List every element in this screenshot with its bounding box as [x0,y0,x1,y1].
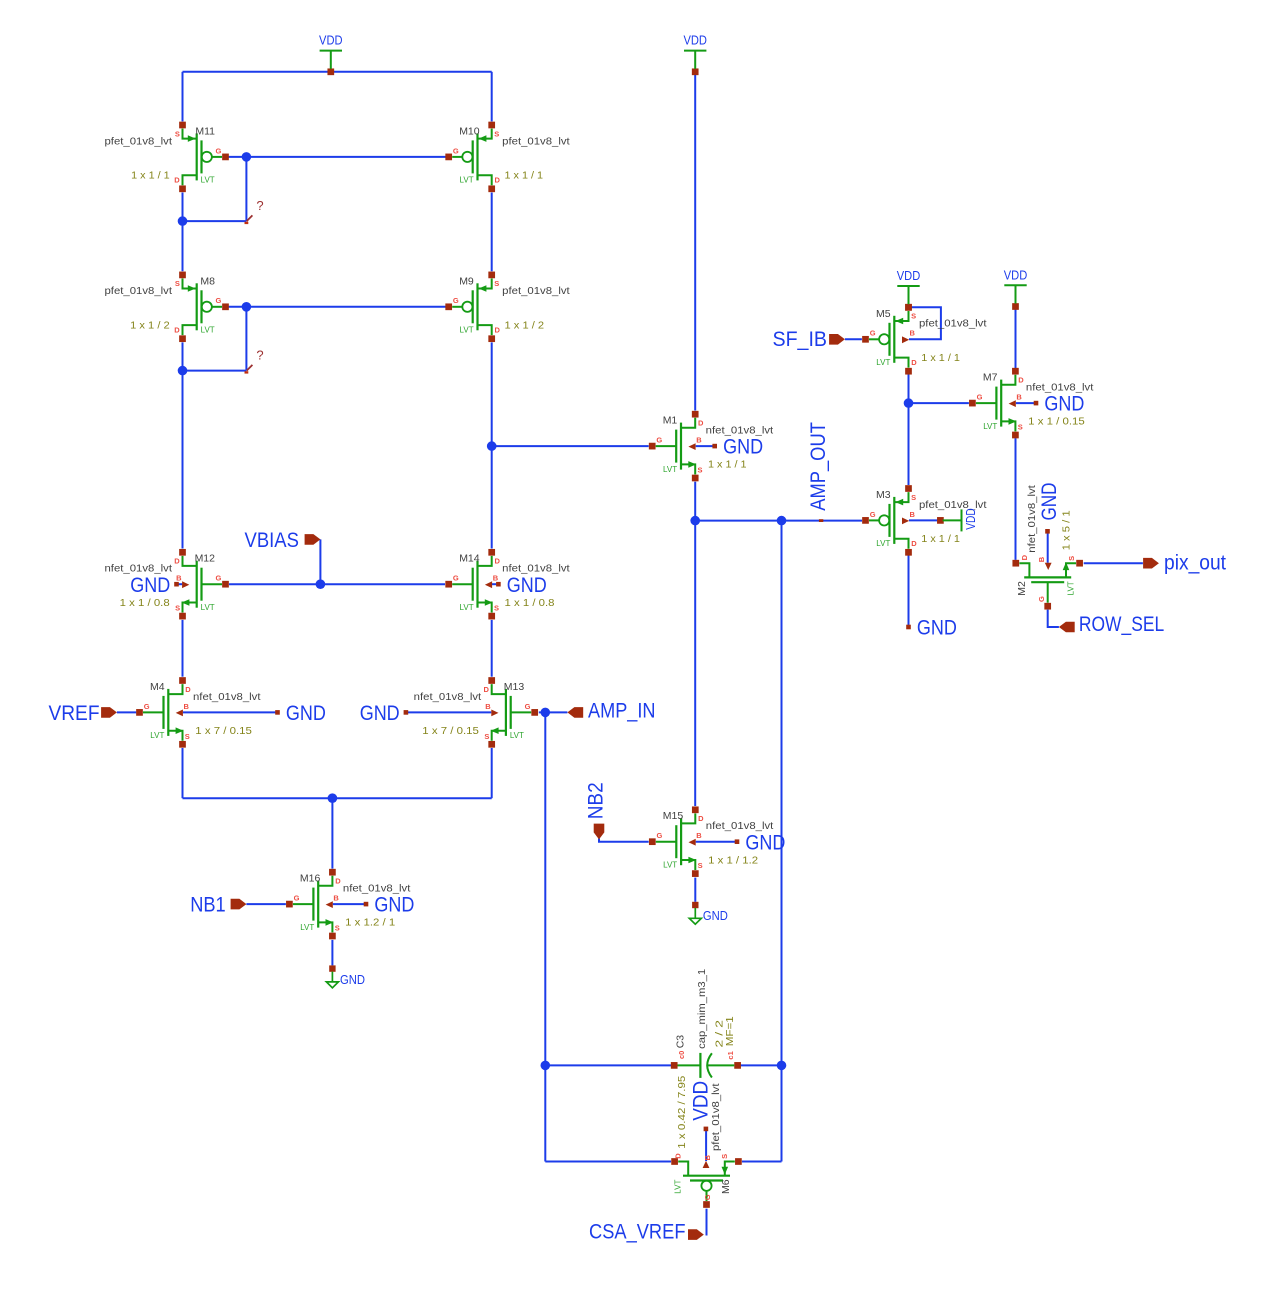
nmos transistor M12 (nfet_01v8_lvt 1 x 1 / 0.8) [105,549,229,620]
wire M1 source down [694,482,696,521]
svg-text:M16: M16 [300,873,321,885]
svg-text:M9: M9 [459,275,474,287]
svg-text:pfet_01v8_lvt: pfet_01v8_lvt [105,285,173,297]
svg-text:D: D [483,685,489,694]
svg-text:D: D [1020,554,1029,560]
svg-text:GND: GND [745,831,785,854]
VDD supply symbol (above M7) [1004,267,1028,310]
svg-text:M12: M12 [195,553,216,565]
wire M2 gate to ROW_SEL [1048,610,1059,627]
svg-text:GND: GND [340,972,365,987]
svg-text:pfet_01v8_lvt: pfet_01v8_lvt [502,135,570,147]
VDD supply symbol (above M5) [897,268,921,311]
svg-text:LVT: LVT [201,176,215,185]
wire M4 source down [182,748,184,798]
nmos transistor M14 (nfet_01v8_lvt 1 x 1 / 0.8) [445,549,569,620]
svg-text:c1: c1 [726,1051,735,1059]
svg-text:D: D [1018,376,1024,385]
svg-text:S: S [698,861,703,870]
svg-text:1 x 1 / 1.2: 1 x 1 / 1.2 [708,854,758,866]
VDD supply symbol (top middle) [683,33,707,76]
wire C3 c1 to AMP_OUT vertical [738,1064,782,1066]
svg-text:1 x 0.42 / 7.95: 1 x 0.42 / 7.95 [676,1076,688,1149]
wire M10 drain to M9 source [491,193,493,272]
svg-text:M11: M11 [195,125,215,137]
wire VDD top rail [183,71,492,73]
svg-text:LVT: LVT [1067,581,1076,595]
nmos transistor M1 (nfet_01v8_lvt 1 x 1 / 1) [649,411,773,482]
wire NB1 to M16 gate [246,903,286,905]
pmos transistor M3 (pfet_01v8_lvt 1 x 1 / 1) [862,485,986,556]
net label GND (M2 bulk, rotated) [1038,483,1061,534]
wire to M6 drain [545,1161,671,1163]
svg-text:M6: M6 [720,1179,732,1194]
nmos transistor M15 (nfet_01v8_lvt 1 x 1 / 1.2) [649,806,773,877]
svg-text:AMP_OUT: AMP_OUT [807,422,830,511]
svg-text:G: G [453,574,459,583]
VDD supply symbol (top left) [319,33,343,76]
svg-text:G: G [657,831,663,840]
svg-text:D: D [174,176,180,185]
svg-text:GND: GND [360,702,400,725]
svg-text:VDD: VDD [897,268,921,283]
svg-text:G: G [870,329,876,338]
I/O pin ROW_SEL [1059,613,1164,636]
svg-text:pfet_01v8_lvt: pfet_01v8_lvt [919,318,987,330]
wire VDD rail to M11 source [182,72,184,122]
svg-text:D: D [495,557,501,566]
svg-text:S: S [484,732,489,741]
svg-text:1 x 1 / 0.8: 1 x 1 / 0.8 [505,597,555,609]
svg-text:S: S [335,924,340,933]
svg-text:D: D [495,326,501,335]
svg-text:VDD: VDD [963,508,978,530]
svg-text:GND: GND [130,574,170,597]
svg-text:D: D [674,1153,683,1159]
svg-text:G: G [525,702,531,711]
svg-text:M15: M15 [663,810,684,822]
nmos transistor M4 (nfet_01v8_lvt 1 x 7 / 0.15) [136,677,260,748]
svg-text:nfet_01v8_lvt: nfet_01v8_lvt [706,425,774,437]
wire SF_IB to M5 gate [845,338,862,340]
net label GND (M4 bulk) [275,702,326,725]
wire tail to M16 drain [331,798,333,868]
svg-text:S: S [175,129,180,138]
svg-text:GND: GND [374,894,414,917]
svg-text:LVT: LVT [460,326,474,335]
svg-text:S: S [1067,556,1076,561]
wire M2 source to pix_out [1084,562,1143,564]
svg-text:GND: GND [703,908,728,923]
wire M7 bulk to GND label [1016,402,1034,404]
wire M1 bulk to GND label [696,445,713,447]
wire M5 source-bulk tie [909,307,941,339]
svg-text:S: S [1018,423,1023,432]
I/O pin pix_out [1143,551,1226,574]
svg-text:LVT: LVT [201,326,215,335]
svg-text:1 x 1.2 / 1: 1 x 1.2 / 1 [345,917,395,929]
svg-text:D: D [911,358,917,367]
svg-text:pfet_01v8_lvt: pfet_01v8_lvt [105,135,173,147]
svg-text:pfet_01v8_lvt: pfet_01v8_lvt [502,285,570,297]
junction AMP_OUT / feedback node [777,516,787,526]
junction cascode / M1 gate node [487,441,497,451]
svg-text:G: G [1037,596,1046,602]
net label AMP_OUT (rotated) [807,422,830,522]
svg-text:M8: M8 [200,275,215,287]
svg-text:GND: GND [1038,483,1061,521]
nmos transistor M13 (nfet_01v8_lvt 1 x 7 / 0.15) [414,677,538,748]
wire M5 drain to M7 gate [909,402,969,404]
svg-text:LVT: LVT [460,176,474,185]
wire AMP_OUT to M3 gate [695,520,862,522]
svg-text:NB2: NB2 [585,782,608,819]
svg-text:M3: M3 [876,489,891,501]
svg-text:AMP_IN: AMP_IN [588,699,656,722]
svg-text:B: B [1037,556,1046,562]
nmos transistor M16 (nfet_01v8_lvt 1 x 1.2 / 1) [286,869,410,940]
unnamed net marker ? (M8 bulk node) [245,348,264,374]
svg-text:S: S [494,279,499,288]
VDD supply symbol (M3 bulk, rotated) [937,508,978,531]
svg-text:1 x 1 / 1: 1 x 1 / 1 [131,170,170,182]
wire M3 drain to GND label [908,555,910,626]
svg-text:LVT: LVT [460,603,474,612]
svg-text:CSA_VREF: CSA_VREF [589,1221,686,1244]
svg-text:C3: C3 [675,1035,687,1049]
svg-text:1 x 1 / 1: 1 x 1 / 1 [505,170,544,182]
pmos transistor M11 (pfet_01v8_lvt 1 x 1 / 1) [105,122,229,193]
svg-text:G: G [703,1194,712,1200]
wire M13 gate to AMP_IN pin [539,711,568,713]
svg-text:VREF: VREF [49,702,100,725]
svg-text:D: D [174,557,180,566]
nmos transistor M7 (nfet_01v8_lvt 1 x 1 / 0.15) [969,368,1093,439]
svg-text:GND: GND [1044,393,1084,416]
svg-text:B: B [910,510,916,519]
svg-text:B: B [696,831,702,840]
svg-text:B: B [1016,393,1022,402]
GND ground symbol (below M15) [689,902,728,924]
junction C3 c0 node [541,1061,551,1071]
svg-text:G: G [144,702,150,711]
junction C3 c1 node [777,1061,787,1071]
svg-text:M7: M7 [983,372,998,384]
svg-text:G: G [215,146,221,155]
wire M8 gate-drain tie vertical [245,307,247,371]
junction M1 source / AMP_OUT node [690,516,700,526]
wire M11 gate to M10 gate [226,156,449,158]
wire M11 drain to M8 source [182,193,184,272]
wire M16 source to ground [331,940,333,966]
svg-text:D: D [911,539,917,548]
svg-text:S: S [698,466,703,475]
svg-text:D: D [185,685,191,694]
wire M2 bulk to GND label [1047,533,1049,562]
svg-text:G: G [215,574,221,583]
svg-text:LVT: LVT [876,539,890,548]
wire M15 source to ground [694,878,696,902]
svg-text:G: G [870,510,876,519]
junction tail current node [328,793,338,803]
pmos transistor M9 (pfet_01v8_lvt 1 x 1 / 2) [445,272,569,343]
wire M14 source to M13 drain [491,620,493,677]
wire AMP_OUT vertical to M6 source [781,521,783,1162]
wire VREF to M4 gate [117,711,136,713]
svg-text:G: G [977,393,983,402]
wire M12 gate to M14 gate (VBIAS net) [229,583,445,585]
svg-text:VDD: VDD [683,33,707,48]
wire M4 bulk to GND label [183,711,276,713]
svg-text:?: ? [256,198,263,213]
wire M5 drain down [908,374,910,403]
pmos transistor M5 (pfet_01v8_lvt 1 x 1 / 1) [862,304,986,375]
svg-text:LVT: LVT [674,1180,683,1194]
svg-text:LVT: LVT [201,603,215,612]
svg-text:S: S [911,312,916,321]
svg-text:nfet_01v8_lvt: nfet_01v8_lvt [502,563,570,575]
svg-text:LVT: LVT [300,923,314,932]
wire to M6 source [742,1161,782,1163]
svg-text:1 x 1 / 0.15: 1 x 1 / 0.15 [1028,416,1085,428]
svg-text:B: B [910,329,916,338]
svg-text:G: G [453,296,459,305]
wire AMP_OUT node to M15 drain [694,521,696,806]
I/O pin VREF [49,702,117,725]
I/O pin AMP_IN [567,699,655,722]
I/O pin CSA_VREF [589,1221,704,1244]
capacitor C3 (cap_mim_m3_1 2/2 MF=1) [671,969,741,1078]
net label GND (M7 bulk) [1034,393,1085,416]
junction M8 drain node [178,366,188,376]
svg-text:nfet_01v8_lvt: nfet_01v8_lvt [706,820,774,832]
net label VDD (M6 bulk, rotated) [689,1081,712,1131]
svg-text:cap_mim_m3_1: cap_mim_m3_1 [696,969,708,1049]
I/O pin NB1 [190,894,246,917]
junction M5 drain / M7 gate node [904,398,914,408]
svg-text:LVT: LVT [510,731,524,740]
svg-text:M14: M14 [459,553,480,565]
wire M8 gate-drain tie horizontal [183,370,247,372]
svg-text:G: G [453,146,459,155]
svg-text:LVT: LVT [876,358,890,367]
svg-text:LVT: LVT [150,731,164,740]
svg-text:1 x 1 / 0.8: 1 x 1 / 0.8 [120,597,170,609]
svg-text:M13: M13 [504,681,525,693]
wire M7 source to M2 drain [1015,438,1017,560]
svg-text:B: B [696,436,702,445]
net label GND (M12 bulk) [130,574,179,597]
svg-text:S: S [494,604,499,613]
unnamed net marker ? (M11 bulk node) [245,198,264,224]
wire M15 bulk to GND label [696,841,735,843]
wire AMP_IN vertical to M6 drain [544,1065,546,1161]
net label GND (M1 bulk) [712,436,763,459]
svg-text:G: G [656,436,662,445]
wire M11 gate-drain tie horizontal [183,220,247,222]
net label GND (M16 bulk) [364,894,415,917]
junction M11 drain / M8 source node [178,216,188,226]
svg-text:M10: M10 [459,125,480,137]
svg-text:1 x 1 / 1: 1 x 1 / 1 [921,352,960,364]
wire M6 bulk to VDD label [705,1131,707,1161]
svg-text:S: S [911,493,916,502]
svg-text:GND: GND [507,574,547,597]
svg-text:LVT: LVT [983,422,997,431]
svg-text:B: B [493,574,499,583]
svg-text:nfet_01v8_lvt: nfet_01v8_lvt [343,883,411,895]
wire VDD to M1 drain [694,72,696,411]
I/O pin NB2 [585,782,608,839]
svg-text:GND: GND [286,702,326,725]
wire M13 bulk to GND label [406,711,491,713]
svg-text:LVT: LVT [663,465,677,474]
wire M3 bulk to VDD [909,519,938,521]
svg-text:?: ? [256,348,263,363]
svg-text:1 x 5 / 1: 1 x 5 / 1 [1060,510,1072,550]
wire M9 drain to M14 drain [491,342,493,548]
nmos transistor M2 (nfet_01v8_lvt 1 x 5 / 1) [1012,485,1083,609]
svg-text:S: S [175,279,180,288]
GND ground symbol (below M16) [326,965,365,987]
svg-text:S: S [720,1154,729,1159]
svg-text:1 x 1 / 1: 1 x 1 / 1 [708,459,747,471]
svg-text:B: B [485,702,491,711]
wire NB2 to M15 gate [599,839,649,842]
svg-text:G: G [294,894,300,903]
wire M13 source down [491,748,493,798]
svg-text:B: B [333,894,339,903]
svg-text:1 x 7 / 0.15: 1 x 7 / 0.15 [195,725,252,737]
wire VDD rail to M10 source [491,72,493,122]
svg-text:nfet_01v8_lvt: nfet_01v8_lvt [414,691,482,703]
svg-text:nfet_01v8_lvt: nfet_01v8_lvt [193,691,261,703]
svg-text:nfet_01v8_lvt: nfet_01v8_lvt [1026,382,1094,394]
svg-text:G: G [215,296,221,305]
I/O pin VBIAS [245,529,321,552]
svg-text:VBIAS: VBIAS [245,529,299,552]
wire to C3 c0 [545,1064,674,1066]
svg-text:B: B [176,574,182,583]
pmos transistor M8 (pfet_01v8_lvt 1 x 1 / 2) [105,272,229,343]
svg-text:GND: GND [917,617,957,640]
svg-text:VDD: VDD [689,1081,712,1121]
svg-text:VDD: VDD [319,33,343,48]
pmos transistor M10 (pfet_01v8_lvt 1 x 1 / 1) [445,122,569,193]
svg-text:D: D [174,326,180,335]
net label GND (M14 bulk) [496,574,547,597]
net label GND (M13 bulk) [360,702,409,725]
junction VBIAS node [316,579,326,589]
svg-text:1 x 1 / 2: 1 x 1 / 2 [130,319,170,331]
wire M8 drain to M12 drain [182,342,184,548]
svg-text:c0: c0 [677,1051,686,1059]
svg-text:SF_IB: SF_IB [773,328,828,351]
svg-text:M2: M2 [1016,581,1028,596]
wire M14 bulk to GND label [492,583,497,585]
svg-text:S: S [175,604,180,613]
svg-text:M1: M1 [663,415,678,427]
svg-text:S: S [185,732,190,741]
net label GND (M15 bulk) [735,831,786,854]
svg-text:pix_out: pix_out [1164,551,1226,574]
svg-text:D: D [335,877,341,886]
wire M11 gate-drain tie vertical [245,157,247,221]
svg-text:M4: M4 [150,681,165,693]
svg-text:nfet_01v8_lvt: nfet_01v8_lvt [105,563,173,575]
svg-text:MF=1: MF=1 [724,1016,736,1046]
wire M5 drain to M3 source [908,403,910,485]
wire M16 bulk to GND label [333,903,364,905]
pmos transistor M6 (pfet_01v8_lvt 1 x 0.42 / 7.95) [671,1076,742,1208]
svg-text:nfet_01v8_lvt: nfet_01v8_lvt [1026,485,1038,553]
svg-text:ROW_SEL: ROW_SEL [1079,613,1164,636]
svg-text:1 x 1 / 1: 1 x 1 / 1 [921,533,960,545]
I/O pin SF_IB [773,328,845,351]
wire M12 source to M4 drain [182,620,184,677]
svg-text:B: B [184,702,190,711]
svg-text:NB1: NB1 [190,894,226,917]
wire VDD to M7 drain [1015,307,1017,369]
svg-text:D: D [698,419,704,428]
svg-text:M5: M5 [876,308,891,320]
wire M8 gate to M9 gate [226,306,449,308]
svg-text:GND: GND [723,436,763,459]
svg-text:LVT: LVT [663,861,677,870]
wire differential pair tail [183,797,492,799]
svg-text:1 x 7 / 0.15: 1 x 7 / 0.15 [422,725,479,737]
wire M6 gate to CSA_VREF [706,1209,708,1236]
wire AMP_IN vertical to C3 [544,712,546,1065]
svg-text:D: D [495,176,501,185]
wire VBIAS pin stem [319,539,321,584]
wire M12 bulk to GND label [177,583,183,585]
net label GND (M3 drain) [906,617,957,640]
svg-text:1 x 1 / 2: 1 x 1 / 2 [505,319,545,331]
junction AMP_IN node [541,708,551,718]
svg-text:D: D [698,814,704,823]
svg-text:VDD: VDD [1004,267,1028,282]
svg-text:S: S [494,129,499,138]
wire cascode node to M1 gate [492,445,649,447]
junction M8 gate node [242,302,252,312]
svg-text:B: B [703,1155,712,1161]
junction M11 gate node [242,152,252,162]
